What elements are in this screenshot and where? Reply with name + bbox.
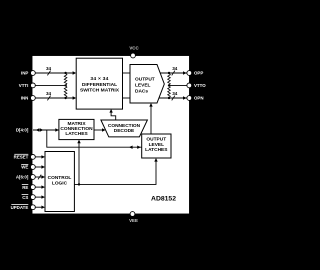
wire control logic to latches [74, 160, 156, 184]
wire WE to control logic [33, 166, 42, 168]
arrow D bus into matrix latches [55, 128, 59, 131]
svg-text:CONNECTION: CONNECTION [108, 123, 141, 129]
label UPDATE [11, 204, 29, 210]
wire decode to matrix [111, 112, 116, 121]
bus slash INP [47, 71, 50, 76]
pin OPN [187, 96, 192, 101]
wire D bus pin to matrix latches [33, 129, 59, 131]
wire INP input line [33, 72, 73, 74]
wire D bus branch down [47, 130, 142, 147]
svg-text:INN: INN [21, 96, 29, 101]
junction input R mid (VTTI) [64, 84, 66, 86]
svg-text:INP: INP [21, 71, 28, 76]
junction input R top [64, 72, 66, 74]
svg-text:LOGIC: LOGIC [52, 180, 68, 186]
chip outline AD8152 [32, 56, 190, 215]
block U2 output level DACs [130, 65, 164, 104]
arrow D bus out (left) [36, 128, 40, 131]
arrow CS [41, 195, 45, 198]
pin VCC top [131, 53, 136, 58]
label RE [22, 184, 29, 190]
svg-text:CS: CS [22, 195, 28, 200]
svg-text:34: 34 [46, 66, 52, 71]
svg-text:DECODE: DECODE [114, 128, 135, 134]
svg-text:DIFFERENTIAL: DIFFERENTIAL [82, 82, 117, 88]
wire matrix to DACs upper [123, 72, 131, 74]
arrow into matrix latches bottom [77, 140, 80, 144]
block U6 control logic [45, 152, 74, 212]
junction control branch [78, 183, 80, 185]
resistor R2 input termination bottom [64, 85, 67, 98]
arrow RESET [41, 155, 45, 158]
pin INP [31, 71, 36, 76]
svg-text:D[4:0]: D[4:0] [16, 128, 29, 133]
block U3 connection decode [101, 120, 147, 137]
wire OPP output line [160, 72, 187, 74]
svg-text:CONNECTION: CONNECTION [60, 126, 93, 132]
arrow D bus in (right) [40, 128, 44, 131]
arrow OPN to pin [183, 96, 187, 99]
svg-text:CONTROL: CONTROL [48, 175, 72, 181]
resistor R4 output termination bottom [168, 85, 171, 98]
pin RE [31, 185, 36, 190]
svg-text:RESET: RESET [14, 155, 29, 160]
pin CS [31, 195, 36, 200]
arrow decode into matrix [109, 109, 112, 113]
svg-text:OUTPUT: OUTPUT [146, 137, 166, 143]
arrow WE [41, 165, 45, 168]
svg-text:OUTPUT: OUTPUT [135, 76, 155, 82]
junction output R mid (VTTO) [168, 84, 170, 86]
arrow into output level latches bottom [154, 158, 157, 162]
svg-text:RE: RE [22, 185, 28, 190]
svg-text:34: 34 [172, 91, 178, 96]
wire matrix latches to decode [94, 129, 103, 131]
label CS [22, 194, 29, 200]
svg-text:SWITCH MATRIX: SWITCH MATRIX [80, 88, 120, 94]
svg-text:DACs: DACs [135, 88, 148, 94]
svg-text:MATRIX: MATRIX [67, 121, 86, 127]
svg-text:LATCHES: LATCHES [145, 147, 168, 153]
pin INN [31, 96, 36, 101]
wire OPN output line [159, 97, 187, 99]
wire control branch up to matrix latches [78, 142, 80, 185]
pin RESET [31, 155, 36, 160]
wire A bus to control logic [33, 176, 42, 178]
svg-text:OPP: OPP [194, 71, 203, 76]
resistor R3 output termination top [168, 73, 171, 85]
arrow RE [41, 185, 45, 188]
wire VTTI line [33, 84, 66, 86]
svg-text:OPN: OPN [194, 96, 204, 101]
wire CS to control logic [33, 196, 42, 198]
svg-text:VTTO: VTTO [194, 83, 206, 88]
svg-text:34: 34 [46, 91, 52, 96]
wire RESET to control logic [33, 156, 42, 158]
svg-text:34 × 34: 34 × 34 [90, 76, 108, 82]
pin A bus [31, 175, 36, 180]
block U1 34x34 differential switch matrix [76, 58, 122, 109]
bus slash INN [47, 96, 50, 101]
wire UPDATE to control logic [33, 206, 42, 208]
wire output level latches to DACs [150, 106, 152, 135]
svg-text:LATCHES: LATCHES [65, 131, 88, 137]
junction input R bottom [64, 97, 66, 99]
pin OPP [187, 71, 192, 76]
svg-text:LEVEL: LEVEL [149, 142, 165, 148]
svg-text:UPDATE: UPDATE [11, 205, 29, 210]
wire INN input line [33, 97, 73, 99]
arrow D branch back (left) [129, 146, 133, 149]
pin UPDATE [31, 205, 36, 210]
arrow INN into matrix [73, 96, 77, 99]
arrow INP into matrix [73, 71, 77, 74]
bus slash OPN [172, 96, 175, 101]
label RESET [14, 154, 29, 160]
label WE [21, 164, 28, 170]
svg-text:VTTI: VTTI [19, 83, 29, 88]
junction output R bottom [168, 97, 170, 99]
svg-text:LEVEL: LEVEL [135, 82, 151, 88]
svg-text:A[6:0]: A[6:0] [16, 175, 29, 180]
pin VTTO [187, 83, 192, 88]
svg-text:34: 34 [172, 66, 178, 71]
arrow into decode [102, 128, 106, 131]
wire matrix to DACs lower [123, 97, 131, 99]
block U4 matrix connection latches [59, 119, 94, 139]
arrow UPDATE [41, 206, 45, 209]
svg-text:VEE: VEE [129, 218, 138, 223]
wire VTTO line [169, 84, 187, 86]
arrow into DACs bottom [149, 103, 152, 107]
svg-text:VCC: VCC [129, 45, 139, 50]
bus slash A [38, 175, 41, 180]
arrow A bus [41, 175, 45, 178]
arrow D branch into output level latches [137, 146, 141, 149]
pin VTTI [31, 83, 36, 88]
wire RE to control logic [33, 186, 42, 188]
junction output R top [168, 72, 170, 74]
svg-text:AD8152: AD8152 [151, 195, 176, 202]
arrow OPP to pin [183, 71, 187, 74]
pin WE [31, 165, 36, 170]
pin VEE bottom [130, 212, 135, 217]
block U5 output level latches [142, 134, 171, 158]
resistor R1 input termination top [64, 73, 67, 85]
bus slash OPP [172, 71, 175, 76]
svg-text:WE: WE [21, 165, 28, 170]
